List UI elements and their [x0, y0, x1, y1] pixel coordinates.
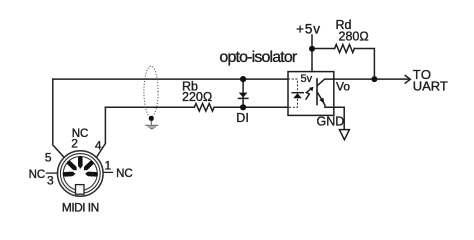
svg-text:NC: NC [29, 169, 46, 181]
svg-text:Vo: Vo [336, 79, 350, 93]
svg-text:5: 5 [45, 150, 52, 164]
svg-text:1: 1 [104, 159, 111, 173]
svg-text:2: 2 [71, 137, 78, 151]
svg-text:3: 3 [47, 174, 54, 188]
svg-text:4: 4 [95, 139, 102, 153]
svg-text:+5v: +5v [296, 22, 321, 37]
svg-text:280Ω: 280Ω [339, 30, 369, 44]
svg-text:220Ω: 220Ω [182, 90, 212, 104]
svg-text:MIDI IN: MIDI IN [62, 200, 99, 214]
svg-text:opto-isolator: opto-isolator [219, 49, 298, 66]
svg-text:NC: NC [116, 168, 133, 180]
svg-text:5v: 5v [301, 73, 313, 85]
svg-text:UART: UART [413, 79, 448, 94]
svg-text:DI: DI [236, 111, 249, 125]
svg-text:GND: GND [317, 114, 345, 128]
